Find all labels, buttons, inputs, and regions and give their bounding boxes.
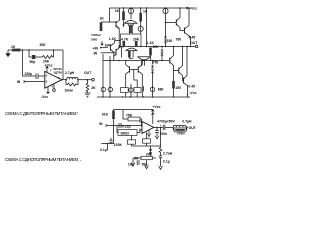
svg-text:10K: 10K xyxy=(152,45,159,49)
svg-text:100: 100 xyxy=(167,39,173,43)
svg-text:+Vcc: +Vcc xyxy=(189,6,197,10)
svg-text:2.7µH: 2.7µH xyxy=(65,71,75,75)
svg-text:20K: 20K xyxy=(146,152,153,156)
svg-text:2K: 2K xyxy=(91,86,96,90)
svg-text:IN: IN xyxy=(99,122,103,126)
svg-text:↑: ↑ xyxy=(76,111,78,116)
svg-text:IN: IN xyxy=(17,80,21,84)
svg-text:50p: 50p xyxy=(30,60,36,64)
svg-text:130K: 130K xyxy=(114,143,123,147)
svg-text:10ом: 10ом xyxy=(65,89,74,93)
svg-text:+Vcc: +Vcc xyxy=(45,64,53,68)
svg-text:2.7ом: 2.7ом xyxy=(163,152,173,156)
svg-text:УД708: УД708 xyxy=(54,70,63,74)
svg-text:4.7K: 4.7K xyxy=(121,37,129,41)
svg-text:OUT: OUT xyxy=(190,41,198,45)
svg-text:GND: GND xyxy=(91,38,97,42)
svg-text:780: 780 xyxy=(176,38,182,42)
svg-text:OUT: OUT xyxy=(84,71,92,75)
svg-text:OUT: OUT xyxy=(189,126,197,130)
svg-text:20K: 20K xyxy=(133,37,140,41)
svg-text:1K: 1K xyxy=(143,10,148,14)
svg-text:1K: 1K xyxy=(11,45,16,49)
svg-text:ПУЛЬС: ПУЛЬС xyxy=(92,33,102,37)
svg-text:1K: 1K xyxy=(100,17,105,21)
svg-text:СХЕМА С ОДНОПОЛЯРНЫМ ПИТАНИЕМ→: СХЕМА С ОДНОПОЛЯРНЫМ ПИТАНИЕМ→ xyxy=(5,157,82,162)
svg-text:700н: 700н xyxy=(177,132,185,136)
svg-text:+Vcc: +Vcc xyxy=(153,105,161,109)
svg-text:390Ω: 390Ω xyxy=(121,131,130,135)
svg-text:10: 10 xyxy=(139,119,143,123)
svg-text:0.22µ: 0.22µ xyxy=(122,124,131,128)
svg-text:-IN: -IN xyxy=(93,52,98,56)
svg-text:750: 750 xyxy=(153,61,159,65)
svg-text:0.1µ: 0.1µ xyxy=(163,159,170,163)
svg-text:10µ: 10µ xyxy=(128,162,134,166)
svg-text:220µ: 220µ xyxy=(25,72,33,76)
svg-text:-Vcc: -Vcc xyxy=(41,95,48,99)
svg-text:5K: 5K xyxy=(134,156,139,160)
svg-text:680: 680 xyxy=(158,88,164,92)
svg-text:-Vcc: -Vcc xyxy=(189,91,196,95)
svg-text:0.45: 0.45 xyxy=(189,36,196,40)
svg-text:0.45: 0.45 xyxy=(188,85,195,89)
svg-text:СХЕМА С ДВУПОЛЯРНЫМ ПИТАНИЕМ: СХЕМА С ДВУПОЛЯРНЫМ ПИТАНИЕМ xyxy=(5,111,77,116)
svg-text:150: 150 xyxy=(175,86,181,90)
svg-text:0.1µ: 0.1µ xyxy=(100,148,107,152)
svg-text:1K: 1K xyxy=(115,9,120,13)
svg-text:91K: 91K xyxy=(102,113,109,117)
svg-text:0.7µH: 0.7µH xyxy=(182,120,192,124)
svg-text:20K: 20K xyxy=(40,43,47,47)
svg-text:+IN: +IN xyxy=(93,46,99,50)
